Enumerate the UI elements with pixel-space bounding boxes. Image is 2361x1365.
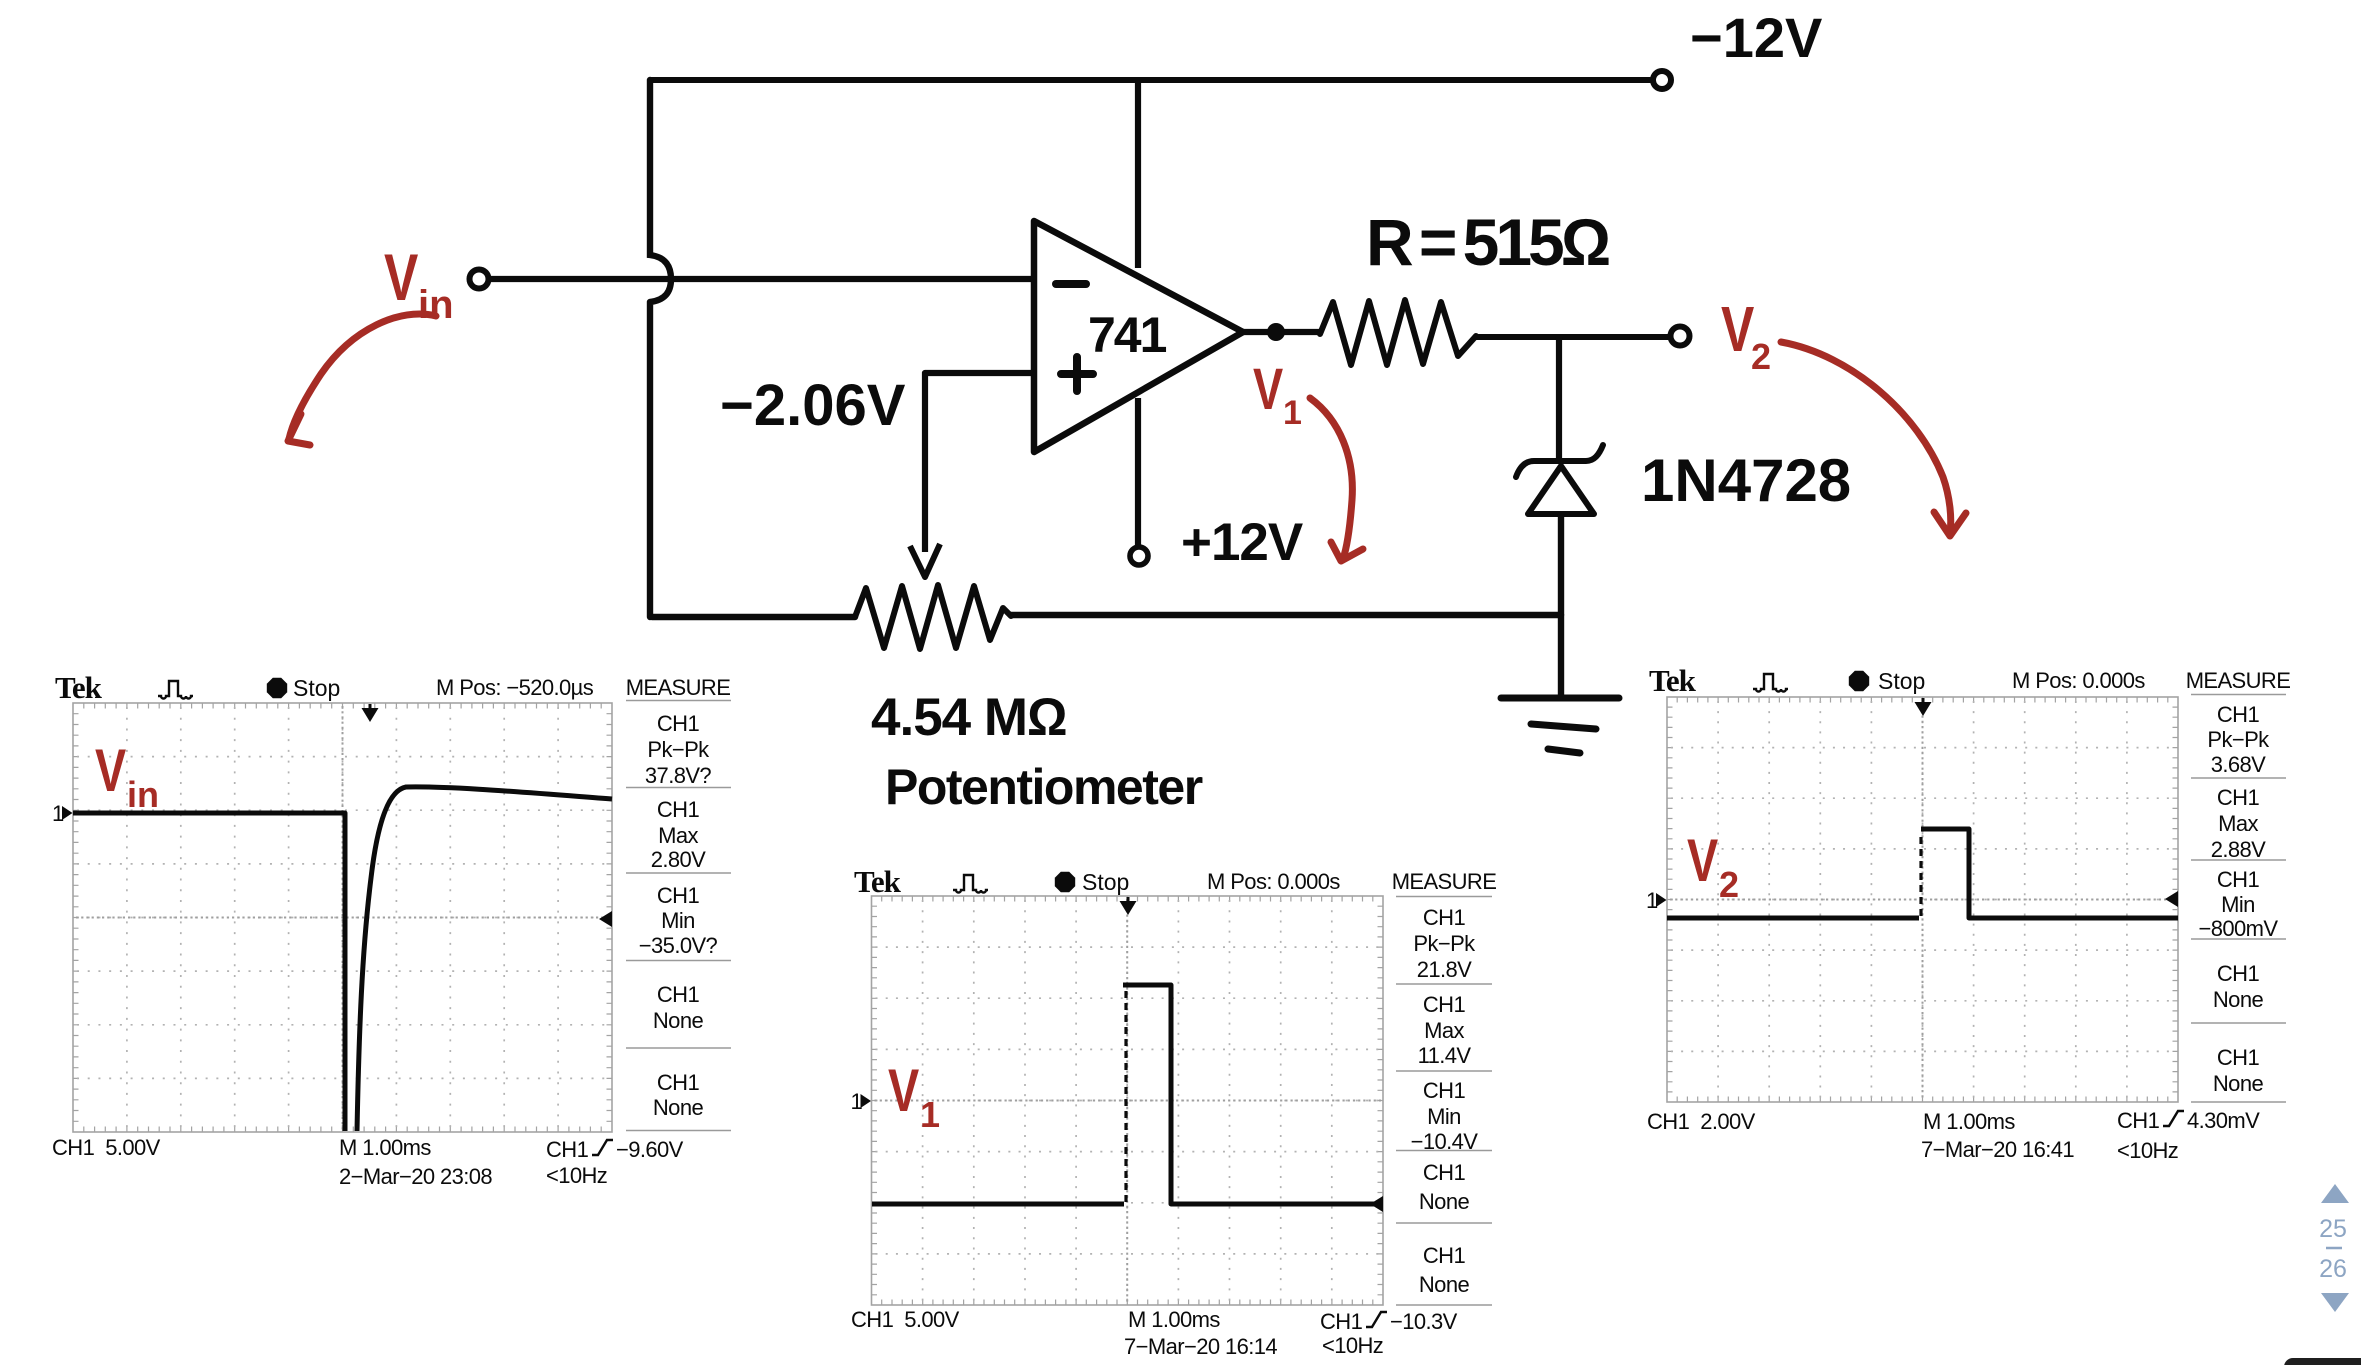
svg-text:CH1: CH1 [2217, 961, 2260, 986]
scope V2: channel 1 marker [1646, 888, 1667, 913]
svg-text:M Pos: 0.000s: M Pos: 0.000s [2012, 668, 2145, 693]
svg-text:CH1: CH1 [546, 1137, 589, 1162]
svg-text:None: None [653, 1008, 704, 1033]
resistor R 515 ohm [1320, 300, 1476, 365]
svg-text:CH1: CH1 [1423, 1078, 1466, 1103]
scope V2: trigger status icon [1753, 674, 1788, 692]
svg-text:<10Hz: <10Hz [1322, 1333, 1383, 1358]
svg-text:CH1 5.00V: CH1 5.00V [52, 1135, 161, 1160]
svg-text:CH1: CH1 [2217, 702, 2260, 727]
scope Vin: trigger position arrow [362, 704, 379, 722]
wire: op-amp output to resistor [1243, 329, 1320, 335]
svg-text:1: 1 [1283, 394, 1302, 432]
scope V2: trigger level arrow [2165, 891, 2178, 907]
svg-text:25: 25 [2319, 1215, 2347, 1243]
svg-text:CH1: CH1 [1423, 905, 1466, 930]
svg-text:−10.4V: −10.4V [1411, 1129, 1479, 1154]
svg-text:V: V [1253, 358, 1283, 423]
scope Vin: measure readout column [626, 701, 731, 1131]
svg-text:7−Mar−20 16:41: 7−Mar−20 16:41 [1921, 1137, 2074, 1162]
svg-text:CH1: CH1 [2117, 1108, 2160, 1133]
scope V1: red handwritten label V1 [888, 1057, 940, 1135]
svg-text:Pk−Pk: Pk−Pk [1413, 931, 1476, 956]
svg-text:CH1: CH1 [1320, 1309, 1363, 1334]
svg-text:V: V [95, 737, 126, 804]
svg-text:−10.3V: −10.3V [1390, 1309, 1458, 1334]
svg-text:Min: Min [1427, 1104, 1461, 1129]
bottom-right black ui corner [2284, 1358, 2361, 1365]
zener diode D1 1N4728 cathode bar [1516, 445, 1603, 477]
svg-text:−9.60V: −9.60V [616, 1137, 684, 1162]
svg-text:Min: Min [2221, 892, 2255, 917]
svg-text:CH1: CH1 [657, 982, 700, 1007]
svg-text:V: V [888, 1057, 919, 1124]
svg-text:Pk−Pk: Pk−Pk [647, 737, 710, 762]
svg-text:in: in [127, 774, 159, 815]
scope Vin: trigger level arrow [599, 911, 612, 927]
scope Vin: trigger status icon [158, 681, 193, 699]
svg-text:26: 26 [2319, 1255, 2347, 1283]
svg-text:None: None [1419, 1272, 1470, 1297]
svg-text:<10Hz: <10Hz [2117, 1138, 2178, 1163]
ground [1501, 698, 1619, 753]
svg-text:<10Hz: <10Hz [546, 1163, 607, 1188]
scope V1: trigger position arrow [1120, 897, 1137, 915]
scope V1: measure readout column [1396, 897, 1492, 1306]
label V2 (red) [1721, 294, 1771, 377]
svg-text:M 1.00ms: M 1.00ms [339, 1135, 431, 1160]
zener diode D1 anode triangle [1528, 466, 1594, 514]
svg-text:Tek: Tek [1649, 663, 1697, 698]
scope V2: measure readout column [2191, 695, 2286, 1103]
svg-text:Max: Max [658, 823, 698, 848]
svg-text:−35.0V?: −35.0V? [639, 933, 718, 958]
svg-text:M 1.00ms: M 1.00ms [1923, 1109, 2015, 1134]
svg-text:4.54 MΩ: 4.54 MΩ [871, 688, 1067, 747]
svg-text:M Pos: 0.000s: M Pos: 0.000s [1207, 869, 1340, 894]
svg-text:CH1: CH1 [2217, 867, 2260, 892]
svg-text:CH1: CH1 [1423, 992, 1466, 1017]
op-amp U1 741 [1034, 221, 1243, 452]
svg-text:V: V [384, 240, 419, 315]
svg-text:Stop: Stop [1878, 668, 1925, 694]
svg-text:MEASURE: MEASURE [2186, 668, 2291, 693]
scope V1: bottom readouts [851, 1307, 1458, 1359]
scope V2: bottom readouts [1647, 1108, 2260, 1163]
svg-text:CH1: CH1 [1423, 1243, 1466, 1268]
potentiometer 4.54 Mohm body [855, 585, 1011, 649]
page nav separator [2326, 1247, 2342, 1250]
scope V1: trigger level arrow [1370, 1196, 1383, 1212]
label Vin (red) [384, 240, 454, 327]
svg-text:Tek: Tek [55, 670, 103, 705]
svg-text:Pk−Pk: Pk−Pk [2207, 727, 2270, 752]
scope Vin: red handwritten label Vin [95, 737, 159, 815]
svg-text:CH1: CH1 [2217, 1045, 2260, 1070]
svg-text:CH1: CH1 [657, 797, 700, 822]
scope V1: trigger status icon [953, 875, 988, 893]
scope V1: waveform trace [872, 1202, 1124, 1207]
svg-text:Max: Max [1424, 1018, 1464, 1043]
svg-text:37.8V?: 37.8V? [645, 763, 711, 788]
scope Vin: waveform trace [73, 787, 612, 1131]
svg-text:None: None [653, 1095, 704, 1120]
svg-text:CH1 5.00V: CH1 5.00V [851, 1307, 960, 1332]
scope V1: Stop indicator [1055, 872, 1075, 892]
svg-text:None: None [2213, 987, 2264, 1012]
wire: resistor to V2 terminal [1476, 334, 1668, 340]
svg-text:Stop: Stop [293, 675, 340, 701]
wire: V- supply from top rail to op-amp [1135, 83, 1141, 268]
svg-text:in: in [418, 283, 454, 327]
svg-text:V: V [1721, 294, 1754, 365]
svg-text:V: V [1687, 827, 1718, 894]
svg-text:741: 741 [1088, 307, 1167, 363]
terminal Vin [470, 270, 489, 289]
svg-text:−800mV: −800mV [2199, 916, 2279, 941]
svg-text:3.68V: 3.68V [2211, 752, 2266, 777]
svg-text:−12V: −12V [1690, 6, 1822, 69]
svg-text:+12V: +12V [1181, 513, 1303, 572]
svg-text:4.30mV: 4.30mV [2187, 1108, 2260, 1133]
page nav up triangle [2321, 1184, 2349, 1203]
page nav down triangle [2321, 1293, 2349, 1312]
svg-text:Stop: Stop [1082, 869, 1129, 895]
scope V1: graticule [872, 896, 1384, 1305]
scope Vin: graticule [73, 703, 612, 1132]
terminal V2 [1671, 327, 1690, 346]
svg-text:CH1: CH1 [657, 1070, 700, 1095]
scope V2: waveform trace [1667, 916, 1919, 921]
wire: zener anode to ground node [1558, 514, 1564, 697]
op-amp inverting pin label [1056, 280, 1086, 288]
wire: left feedback rail with hop over Vin wire [650, 80, 671, 617]
svg-text:2.88V: 2.88V [2211, 837, 2266, 862]
svg-text:MEASURE: MEASURE [1392, 869, 1497, 894]
svg-text:CH1: CH1 [657, 883, 700, 908]
terminal: -12V supply [1653, 71, 1671, 89]
svg-text:MEASURE: MEASURE [626, 675, 731, 700]
wire: zener branch from output node [1556, 337, 1562, 458]
svg-text:1N4728: 1N4728 [1641, 447, 1851, 514]
svg-text:CH1: CH1 [1423, 1160, 1466, 1185]
wire: non-inverting input to potentiometer wiper arrow [910, 373, 1034, 577]
svg-text:M Pos: −520.0µs: M Pos: −520.0µs [436, 675, 594, 700]
svg-text:M 1.00ms: M 1.00ms [1128, 1307, 1220, 1332]
svg-text:R = 515Ω: R = 515Ω [1366, 205, 1609, 279]
wire: top -12V rail [650, 77, 1650, 83]
label V1 (red) [1253, 358, 1302, 432]
svg-text:1: 1 [920, 1094, 940, 1135]
svg-text:Min: Min [661, 908, 695, 933]
node V1 junction dot [1267, 323, 1285, 341]
svg-text:None: None [2213, 1071, 2264, 1096]
scope V2: red handwritten label V2 [1687, 827, 1739, 905]
svg-text:2−Mar−20 23:08: 2−Mar−20 23:08 [339, 1164, 492, 1189]
svg-text:Max: Max [2218, 811, 2258, 836]
svg-text:Potentiometer: Potentiometer [885, 759, 1203, 815]
wire: bottom feedback rail [652, 615, 1561, 617]
red annotation arrow from V1 label [1310, 398, 1363, 561]
scope V2: trigger position arrow [1915, 698, 1932, 716]
scope V2: Stop indicator [1849, 671, 1869, 691]
red annotation arrow from Vin label [288, 314, 436, 445]
svg-text:CH1: CH1 [657, 711, 700, 736]
terminal +12V [1130, 547, 1148, 565]
op-amp non-inverting pin label [1061, 357, 1093, 391]
svg-text:2: 2 [1751, 336, 1771, 377]
svg-text:7−Mar−20 16:14: 7−Mar−20 16:14 [1124, 1334, 1277, 1359]
svg-text:2: 2 [1719, 864, 1739, 905]
svg-text:11.4V: 11.4V [1418, 1043, 1472, 1068]
scope Vin: bottom readouts [52, 1135, 684, 1189]
scope Vin: channel 1 marker [52, 801, 73, 826]
wire: Vin to inverting input [489, 276, 1034, 282]
scope V1: channel 1 marker [851, 1089, 872, 1114]
svg-text:CH1 2.00V: CH1 2.00V [1647, 1109, 1756, 1134]
red annotation arrow from V2 label [1781, 342, 1966, 536]
svg-text:−2.06V: −2.06V [720, 373, 906, 438]
scope Vin: Stop indicator [267, 678, 287, 698]
scope V2: graticule [1667, 697, 2178, 1102]
wire: V+ supply pin of op-amp [1135, 398, 1141, 546]
svg-text:21.8V: 21.8V [1417, 957, 1472, 982]
svg-text:None: None [1419, 1189, 1470, 1214]
svg-text:2.80V: 2.80V [651, 847, 706, 872]
svg-text:CH1: CH1 [2217, 785, 2260, 810]
svg-text:Tek: Tek [854, 864, 902, 899]
